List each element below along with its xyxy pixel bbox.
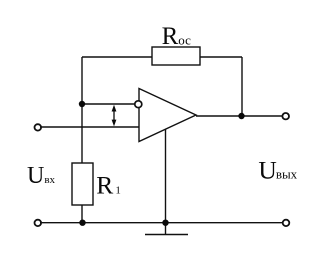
op-amp U1 triangle [139,89,196,142]
ground bar [145,234,188,236]
resistor R1 body [72,163,93,205]
wire: inverting input horizontal [82,103,135,105]
node: junction R1/bottom rail [79,220,85,226]
terminal: common (bottom right) [283,220,290,226]
terminal: input (top left) [35,124,42,130]
wire: non-inverting input horizontal [40,126,139,128]
node: junction at inverting input [79,101,85,107]
wire: top feedback, left segment [82,56,152,58]
terminal: output (top right) [282,113,289,119]
terminal: common (bottom left) [35,220,42,226]
differential input voltage arrow [112,105,117,127]
wire: top feedback, right segment [200,56,242,58]
wire: left vertical (inverting node, upper) [81,57,83,163]
wire: left vertical (R1 bottom lead) [81,205,83,223]
node: junction at output/feedback [238,113,244,119]
wire: output horizontal [196,115,283,117]
resistor Roc body [152,47,200,65]
wire: op-amp ground pin vertical [165,129,167,235]
op-amp inverting input bubble [135,101,142,108]
node: junction ground/bottom rail [162,220,168,226]
wire: bottom common rail [40,222,283,224]
wire: feedback right vertical [241,57,243,116]
